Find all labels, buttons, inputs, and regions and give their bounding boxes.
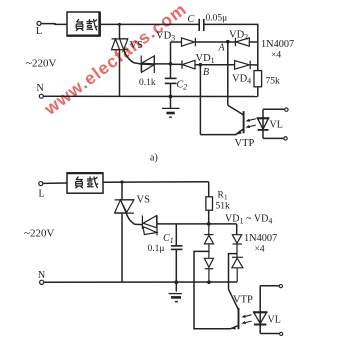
capacitor C 0.05u <box>199 19 204 31</box>
label VS (bottom) <box>137 195 151 206</box>
label VD2 <box>229 30 248 42</box>
capacitor C1 <box>171 224 183 292</box>
label L (bottom) <box>39 189 45 200</box>
triac VS <box>112 39 128 50</box>
svg-text:0.05μ: 0.05μ <box>206 14 228 24</box>
diode VD (col1 bottom, points down) <box>204 258 213 282</box>
N line (top circuit) <box>43 95 257 97</box>
phototransistor VTP (top) <box>228 105 244 134</box>
svg-text:×4: ×4 <box>271 51 281 61</box>
svg-text:VTP: VTP <box>233 295 253 306</box>
label R1 <box>218 191 228 202</box>
node B <box>199 63 203 67</box>
wire L to load box <box>41 23 67 26</box>
col2 middle stub to VTP collector <box>229 254 238 290</box>
char 负 <box>76 177 84 189</box>
label C <box>188 14 195 25</box>
LED VL (bottom) <box>253 286 267 334</box>
svg-text:~220V: ~220V <box>26 58 56 70</box>
wire to VTP emitter <box>200 134 236 136</box>
svg-text:R1: R1 <box>218 191 228 202</box>
watermark www.elecfans.com <box>40 0 191 119</box>
svg-text:VD1 ~ VD4: VD1 ~ VD4 <box>225 214 272 226</box>
wire to diode VD3 <box>171 41 182 43</box>
ground (top circuit) <box>162 97 180 118</box>
triac gate wire <box>124 50 141 64</box>
wire diac to rail / R1 node <box>157 223 237 225</box>
char 负 <box>76 19 84 31</box>
wire node B down <box>199 65 201 135</box>
svg-text:C2: C2 <box>177 80 188 92</box>
wire diac to node <box>154 63 170 65</box>
svg-text:L: L <box>36 26 42 37</box>
junction dot R1/rail <box>207 222 211 226</box>
svg-text:~220V: ~220V <box>24 228 54 240</box>
label 0.05u <box>206 14 228 24</box>
label VD3 <box>156 31 175 43</box>
wire capacitor to right column <box>204 24 258 42</box>
load box (bottom) <box>67 173 103 193</box>
label VS <box>130 40 144 51</box>
label VD1~VD4 <box>225 214 272 226</box>
wire node A down (A-line) <box>227 42 229 105</box>
wire triac to N line <box>119 50 121 97</box>
label a) <box>150 153 158 164</box>
triac gate wire (bottom) <box>126 213 142 225</box>
col1 middle stub to VTP emitter <box>194 251 231 328</box>
diode VD1 <box>182 60 195 69</box>
capacitor C2 <box>165 64 177 97</box>
label A <box>218 43 226 54</box>
label L <box>36 26 42 37</box>
junction node (gate network) <box>169 62 173 66</box>
label C2 <box>177 80 188 92</box>
svg-text:a): a) <box>150 153 158 164</box>
LED VL (top) <box>257 109 270 138</box>
wire VD3 to node A <box>195 41 227 43</box>
svg-text:N: N <box>38 270 45 281</box>
diode VD (col2 top, points down) <box>232 235 242 258</box>
triac VS (bottom) <box>115 200 134 213</box>
diode VD (col2 bottom, points up) <box>232 257 243 282</box>
svg-text:A: A <box>218 43 226 54</box>
diode VD (col1 top, points up) <box>204 224 213 258</box>
svg-text:VTP: VTP <box>235 138 255 149</box>
wire down to triac (bottom) <box>121 182 123 200</box>
svg-text:0.1μ: 0.1μ <box>148 244 165 254</box>
label ~220V <box>26 58 56 70</box>
svg-text:www.elecfans.com: www.elecfans.com <box>40 0 191 119</box>
diode VD3 <box>182 38 196 46</box>
label 75k <box>266 77 281 87</box>
bridge rail corner to col2 <box>236 224 238 235</box>
svg-text:VD4: VD4 <box>232 74 251 86</box>
label ~220V (bottom) <box>24 228 54 240</box>
junction dot at triac branch <box>118 23 121 26</box>
terminal L (bottom) <box>39 182 43 186</box>
svg-text:×4: ×4 <box>255 245 265 255</box>
svg-text:VD2: VD2 <box>229 30 248 42</box>
wire L to load box (bottom) <box>43 182 67 184</box>
label VL (bottom) <box>268 315 281 326</box>
wire VD1 to B to VD4 <box>195 64 235 66</box>
junction dot (triac branch, bottom) <box>120 180 123 183</box>
label 1N4007 x4 <box>261 39 294 61</box>
svg-text:0.1k: 0.1k <box>139 78 156 88</box>
light arrows VL to VTP (top) <box>246 119 256 128</box>
diac (bottom) <box>142 215 157 235</box>
junction dot col1/N <box>207 280 211 284</box>
node A <box>226 40 230 44</box>
wire VD4 to right column <box>250 64 258 66</box>
svg-text:1N4007: 1N4007 <box>261 39 294 50</box>
wire node up to top diode row <box>170 42 172 64</box>
light arrows VL to VTP (bottom) <box>241 315 251 324</box>
label VTP (bottom) <box>233 295 253 306</box>
label 0.1k <box>139 78 156 88</box>
wire down to triac VS <box>119 24 121 39</box>
label VL (top) <box>270 120 283 131</box>
svg-text:N: N <box>37 83 44 94</box>
label C1 <box>163 233 174 245</box>
label B <box>203 67 209 78</box>
terminal N (bottom) <box>40 280 44 284</box>
VL terminal wires (bottom) <box>260 285 283 336</box>
label VD4 <box>232 74 251 86</box>
wire A to VD2 and VD2 to right column <box>228 41 258 43</box>
svg-text:1N4007: 1N4007 <box>244 233 277 244</box>
char 载 <box>87 19 98 31</box>
phototransistor VTP (bottom) <box>229 289 239 329</box>
svg-text:C1: C1 <box>163 233 174 245</box>
label 0.1u <box>148 244 165 254</box>
label 51k <box>216 202 231 212</box>
wire node to diode VD1 <box>171 63 183 65</box>
svg-text:75k: 75k <box>266 77 281 87</box>
diac (trigger diode) top <box>141 56 154 74</box>
svg-text:51k: 51k <box>216 202 231 212</box>
wire triac to N line (bottom) <box>121 213 123 282</box>
svg-text:VL: VL <box>270 120 283 131</box>
svg-text:VD3: VD3 <box>156 31 175 43</box>
terminal N <box>39 94 43 98</box>
svg-text:VS: VS <box>137 195 151 206</box>
ground (bottom) <box>169 294 182 302</box>
svg-text:VS: VS <box>130 40 144 51</box>
label VD1 <box>196 53 215 65</box>
VL terminal wires (top) <box>263 108 288 140</box>
resistor R1 <box>206 182 213 224</box>
right column wire <box>257 42 259 71</box>
char 载 <box>87 177 98 189</box>
svg-text:B: B <box>203 67 209 78</box>
svg-text:VL: VL <box>268 315 281 326</box>
N line (bottom circuit) <box>44 281 237 283</box>
wire load box to capacitor C <box>100 23 199 25</box>
label N (bottom) <box>38 270 45 281</box>
junction dot C1/N (bottom) <box>174 280 178 284</box>
wire load box to R1 corner <box>103 181 209 183</box>
junction dot C2/N <box>169 95 173 99</box>
svg-text:C: C <box>188 14 195 25</box>
load box 负载 (top) <box>67 12 100 36</box>
svg-text:L: L <box>39 189 45 200</box>
label 1N4007 x4 (bottom) <box>244 233 277 255</box>
diode VD2 <box>235 38 249 46</box>
label N <box>37 83 44 94</box>
diode VD4 <box>235 61 251 70</box>
label VTP (top) <box>235 138 255 149</box>
resistor 75k <box>254 71 262 87</box>
wire resistor to N line <box>257 87 259 97</box>
terminal L <box>37 21 41 25</box>
svg-text:VD1: VD1 <box>196 53 215 65</box>
